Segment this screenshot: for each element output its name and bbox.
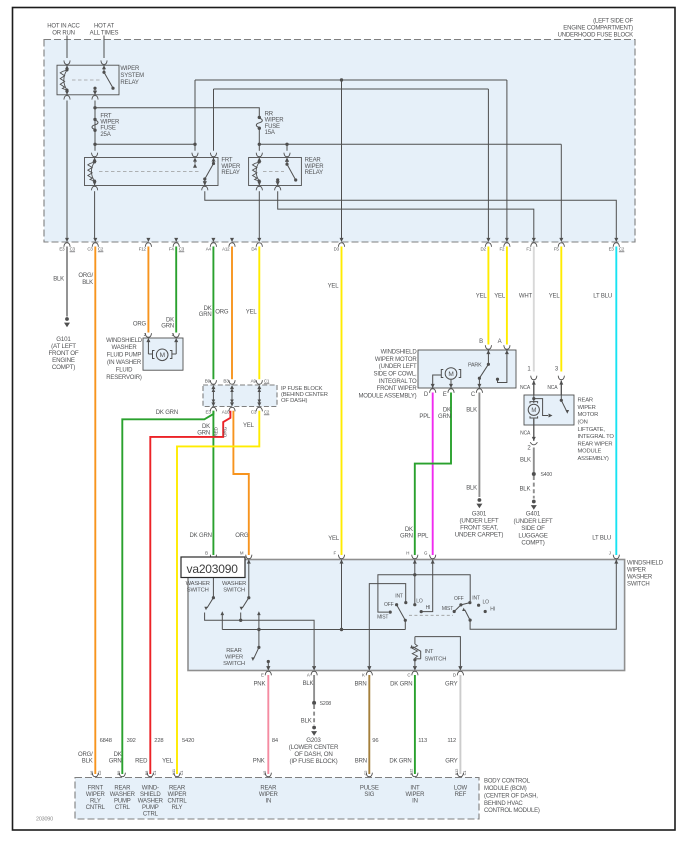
- svg-text:BRN: BRN: [355, 759, 367, 765]
- svg-text:A4: A4: [206, 246, 212, 251]
- svg-text:C1: C1: [264, 379, 270, 384]
- BCM pin A5: REAR WIPER IN: [265, 773, 271, 777]
- svg-text:YEL: YEL: [476, 293, 488, 299]
- component: REAR WIPER MOTOR box: [524, 395, 574, 425]
- svg-text:LO: LO: [483, 599, 490, 605]
- svg-text:YEL: YEL: [328, 536, 340, 542]
- wire: ORG from A12 to IP fuse block B3: [231, 247, 233, 380]
- svg-text:M: M: [160, 352, 165, 359]
- svg-text:FRONT WIPER: FRONT WIPER: [377, 386, 418, 392]
- wiper switch pin K: [367, 666, 371, 670]
- svg-text:ORG/: ORG/: [78, 752, 93, 758]
- svg-text:SIG: SIG: [364, 792, 374, 798]
- svg-text:G203: G203: [306, 737, 321, 744]
- wire: pin J feed to right pivot: [470, 560, 616, 630]
- svg-text:C2: C2: [619, 247, 625, 252]
- svg-text:BLK: BLK: [466, 485, 477, 491]
- wiper switch pin C: [413, 666, 417, 670]
- fuse F2: RR WIPER FUSE 15A: [258, 116, 261, 119]
- svg-text:IN: IN: [265, 798, 271, 804]
- wire: FRT relay switch output to E3 pin (right): [205, 191, 617, 238]
- ground G401: [532, 500, 536, 504]
- svg-text:BLK: BLK: [82, 759, 93, 765]
- splice S208: [312, 701, 316, 705]
- svg-text:BEHIND HVAC: BEHIND HVAC: [484, 801, 523, 807]
- svg-text:WIPER MOTOR: WIPER MOTOR: [375, 357, 417, 363]
- svg-text:ORG: ORG: [133, 321, 147, 327]
- BCM pin C2: PULSE SIG: [366, 773, 372, 777]
- svg-text:LT BLU: LT BLU: [593, 293, 612, 299]
- fuse block pin A4: [211, 238, 215, 242]
- wire: DK GRN from wiper motor E to switch pin H: [415, 393, 451, 556]
- fuse block pin D2: [486, 238, 490, 242]
- svg-text:HI: HI: [426, 605, 431, 611]
- svg-text:WASHER: WASHER: [627, 575, 653, 581]
- svg-text:BLK: BLK: [466, 407, 477, 413]
- svg-text:INT: INT: [472, 595, 480, 601]
- INT switch wiper arrow: [416, 658, 421, 660]
- wiper motor M2: [445, 368, 457, 380]
- svg-text:6848: 6848: [100, 738, 112, 744]
- svg-text:LO: LO: [416, 599, 423, 605]
- svg-text:113: 113: [418, 738, 427, 744]
- wiper mode switch left arm and pivot: [404, 619, 407, 622]
- svg-text:BLK: BLK: [519, 486, 530, 492]
- svg-text:84: 84: [272, 738, 279, 744]
- REAR wiper relay mech dashes: [263, 171, 284, 173]
- svg-text:ORG: ORG: [235, 533, 249, 539]
- REAR wiper relay switch common: [276, 178, 279, 181]
- IP fuse block feed-through at x=232: [230, 385, 234, 389]
- svg-text:(ON: (ON: [578, 420, 588, 426]
- fuse F1: FRT WIPER FUSE 25A: [93, 118, 96, 121]
- wiper system relay coil: [66, 65, 68, 70]
- svg-text:DK GRN: DK GRN: [156, 410, 178, 416]
- component: IP FUSE BLOCK (dashed box): [203, 385, 277, 407]
- wire: below FRT fuse to FRT wiper relay coil: [94, 130, 96, 151]
- svg-text:INT: INT: [425, 649, 434, 655]
- fuse block pin F1: [532, 238, 536, 242]
- fuse block pin A12: [230, 238, 234, 242]
- BCM pin B8: WIND- SHIELD WASHER PUMP CTRL: [147, 773, 153, 777]
- wire: PNK circuit 84 from pin E to BCM: [267, 675, 269, 774]
- BCM pin B9: REAR WASHER PUMP CTRL: [119, 773, 125, 777]
- wire: D2 drop: [487, 89, 489, 238]
- junction below FRT fuse: [93, 143, 96, 146]
- svg-text:(LEFT SIDE OF: (LEFT SIDE OF: [593, 19, 633, 25]
- wire: FRT relay coil to C3 pin: [94, 191, 96, 238]
- junction D3 tap on y80 line: [340, 78, 343, 81]
- svg-text:BLK: BLK: [53, 276, 64, 282]
- svg-text:E: E: [443, 392, 447, 398]
- svg-text:C3: C3: [179, 247, 185, 252]
- svg-text:OR RUN: OR RUN: [52, 30, 75, 36]
- wire: YEL from F2 to wiper motor pin A: [506, 247, 508, 345]
- wire: F2 drop: [506, 80, 508, 238]
- svg-text:MODULE ASSEMBLY): MODULE ASSEMBLY): [358, 394, 416, 400]
- svg-text:LT BLU: LT BLU: [592, 535, 611, 541]
- svg-text:E3: E3: [59, 246, 65, 251]
- wire: horizontal y89 to D2 pin: [214, 88, 489, 90]
- svg-text:WIPER: WIPER: [406, 792, 426, 798]
- svg-text:B: B: [479, 339, 483, 345]
- svg-text:C3: C3: [87, 246, 93, 251]
- FRT wiper relay switch arm: [213, 158, 215, 164]
- svg-text:GRN: GRN: [161, 324, 174, 330]
- wiper switch pin J: [614, 560, 618, 564]
- svg-text:C3: C3: [251, 410, 257, 415]
- wire: ORG from IP A10 down to wiper switch pin M: [233, 411, 248, 555]
- wire: DK GRN circuit 113 from pin C to BCM: [414, 675, 416, 774]
- gang dashes between wiper switches: [409, 614, 453, 616]
- junction below RR fuse: [258, 143, 261, 146]
- svg-text:PUMP: PUMP: [142, 805, 159, 811]
- svg-text:K: K: [362, 673, 365, 678]
- svg-text:MODULE (BCM): MODULE (BCM): [484, 786, 527, 792]
- wiper system relay mech dashes: [72, 79, 100, 81]
- svg-text:A12: A12: [409, 768, 414, 776]
- FRT wiper relay top pins: [93, 158, 97, 162]
- wiper switch pin F: [340, 560, 344, 564]
- fuse block pin D3: [340, 238, 344, 242]
- svg-text:MOTOR: MOTOR: [578, 412, 599, 418]
- svg-text:ORG: ORG: [223, 426, 229, 437]
- IP fuse block feed-through at x=213.4: [211, 385, 215, 389]
- svg-text:F12: F12: [139, 246, 147, 251]
- svg-text:WASHER: WASHER: [110, 792, 136, 798]
- INT SWITCH (variable resistor): [415, 637, 461, 666]
- fuse block pin D4: [257, 238, 261, 242]
- svg-text:OFF: OFF: [454, 596, 464, 602]
- svg-text:REAR: REAR: [578, 398, 593, 404]
- wiper mode switch left: feed from pin H: [414, 560, 416, 605]
- svg-text:E3: E3: [206, 410, 212, 415]
- svg-text:A9: A9: [251, 379, 257, 384]
- svg-text:FLUID: FLUID: [116, 367, 133, 373]
- svg-text:HOT AT: HOT AT: [94, 24, 115, 30]
- svg-text:WIPER: WIPER: [168, 792, 188, 798]
- svg-text:E3: E3: [609, 246, 615, 251]
- washer switch 1 (pin B): [212, 560, 214, 598]
- svg-text:ORG/: ORG/: [78, 273, 93, 279]
- wiper switch pin D: [458, 666, 462, 670]
- svg-text:CNTRL: CNTRL: [167, 798, 187, 804]
- wiper system relay bottom pins: [65, 91, 69, 95]
- svg-text:NCA: NCA: [520, 430, 531, 436]
- wiper switch pin M: [247, 560, 251, 564]
- svg-text:PPL: PPL: [417, 533, 429, 539]
- svg-text:NCA: NCA: [520, 385, 531, 391]
- wire: YEL from D4 to IP fuse block A9: [258, 247, 260, 380]
- svg-text:FUSE: FUSE: [265, 124, 280, 130]
- wire: HOT AT ALL TIMES feed down to wiper system relay switch: [103, 36, 105, 59]
- svg-text:OF DASH, ON: OF DASH, ON: [294, 751, 332, 758]
- svg-text:WASHER: WASHER: [222, 581, 246, 587]
- svg-text:RELAY: RELAY: [221, 170, 240, 176]
- svg-text:DK: DK: [202, 424, 210, 430]
- svg-text:DK GRN: DK GRN: [190, 533, 212, 539]
- svg-text:CTRL: CTRL: [143, 811, 159, 817]
- svg-text:LIFTGATE,: LIFTGATE,: [578, 427, 606, 433]
- svg-text:F2: F2: [500, 246, 506, 251]
- svg-text:S400: S400: [541, 472, 553, 478]
- BCM pin A6: FRNT WIPER RLY CNTRL: [92, 773, 98, 777]
- svg-text:J: J: [609, 551, 611, 556]
- svg-text:REAR WIPER: REAR WIPER: [578, 441, 613, 447]
- washer switch 1 output terminal arrow: [221, 611, 225, 615]
- wire: GRY circuit 112 from pin D to BCM: [459, 675, 461, 774]
- bus line to wiper mode switch pivot: [222, 629, 405, 631]
- rear wiper motor M3: [532, 397, 535, 400]
- wire: BLK dashed S208 to G203: [313, 705, 315, 725]
- svg-text:WHT: WHT: [519, 293, 533, 299]
- svg-text:OFF: OFF: [384, 602, 394, 608]
- svg-text:WASHER: WASHER: [138, 798, 164, 804]
- svg-text:REAR: REAR: [114, 785, 131, 791]
- wire: ORG from F12 to washer pump pin 2: [147, 247, 149, 333]
- svg-text:INTEGRAL TO: INTEGRAL TO: [379, 379, 417, 385]
- svg-text:WIND-: WIND-: [142, 785, 159, 791]
- wire: DK GRN from F4 to washer pump pin 1: [175, 247, 177, 333]
- svg-text:YEL: YEL: [162, 759, 174, 765]
- svg-text:INT: INT: [395, 594, 403, 600]
- wire: pin G to HI contact: [421, 560, 433, 612]
- wire: YEL from D2 to wiper motor pin B: [487, 247, 489, 345]
- wire: BLK dashed S400 to G401: [533, 476, 535, 499]
- svg-text:WINDSHIELD: WINDSHIELD: [106, 338, 143, 344]
- svg-text:F4: F4: [169, 246, 175, 251]
- svg-text:COMPT): COMPT): [521, 540, 544, 547]
- wire: vertical x195 from y80 to FRT relay: [194, 80, 196, 151]
- REAR wiper relay coil: [257, 158, 261, 162]
- svg-text:MIST: MIST: [377, 614, 388, 620]
- svg-text:RLY: RLY: [90, 798, 101, 804]
- svg-text:LOW: LOW: [454, 785, 468, 791]
- wire: pin F into bus: [341, 560, 343, 630]
- svg-text:(UNDER LEFT: (UNDER LEFT: [514, 518, 553, 525]
- svg-text:PUMP: PUMP: [114, 798, 131, 804]
- wire: relay switch output down to fuses: [94, 101, 96, 144]
- svg-text:GRY: GRY: [445, 681, 458, 687]
- svg-text:RR: RR: [265, 112, 274, 118]
- wire: RED circuit 228 from IP A10 to BCM: [150, 411, 230, 774]
- BCM pin A11: REAR WIPER CNTRL RLY: [174, 773, 180, 777]
- component: WINDSHIELD WASHER FLUID PUMP box: [143, 338, 183, 370]
- svg-text:SWITCH: SWITCH: [223, 588, 245, 594]
- wire: WHT from F1 to rear wiper motor pin 1: [533, 247, 535, 372]
- svg-text:YEL: YEL: [494, 293, 506, 299]
- svg-text:A10: A10: [222, 410, 230, 415]
- wire: ORG/BLK circuit 6848 from C3 to BCM: [94, 247, 96, 775]
- svg-text:OF DASH): OF DASH): [281, 398, 308, 404]
- svg-text:D4: D4: [251, 246, 257, 251]
- svg-text:DK: DK: [166, 317, 174, 323]
- relay K2: FRT WIPER RELAY box: [85, 158, 219, 186]
- splice S400: [532, 472, 536, 476]
- svg-text:SWITCH: SWITCH: [223, 661, 245, 667]
- svg-text:5420: 5420: [182, 738, 194, 744]
- wire: REAR relay switch output to F1 pin: [278, 191, 534, 238]
- svg-text:YEL: YEL: [243, 423, 255, 429]
- fuse block pin F12: [146, 238, 150, 242]
- relay K3: REAR WIPER RELAY box: [249, 158, 302, 186]
- wiper system relay switch common pin: [93, 87, 96, 90]
- svg-text:D: D: [453, 673, 456, 678]
- svg-text:REAR: REAR: [226, 648, 241, 654]
- svg-text:REAR: REAR: [260, 785, 277, 791]
- svg-text:A11: A11: [171, 768, 176, 775]
- svg-text:ASSEMBLY): ASSEMBLY): [578, 456, 609, 462]
- wiper switch pin B: [211, 560, 215, 564]
- svg-text:C: C: [407, 673, 410, 678]
- svg-text:96: 96: [372, 738, 378, 744]
- svg-text:PARK: PARK: [468, 362, 482, 368]
- fuse block pin C3: [93, 238, 97, 242]
- wire: FRT relay switch feed x213.5: [213, 89, 215, 151]
- FRT wiper relay bottom pins: [93, 181, 97, 185]
- svg-text:SIDE OF COWL,: SIDE OF COWL,: [374, 371, 418, 377]
- svg-text:DK GRN: DK GRN: [389, 759, 411, 765]
- FRT wiper relay contact arrow: [193, 164, 197, 168]
- junction at fuse feed split: [93, 106, 96, 109]
- ground G101: [65, 317, 69, 321]
- svg-text:HI: HI: [490, 606, 495, 612]
- svg-text:PPL: PPL: [419, 414, 431, 420]
- svg-text:DK: DK: [443, 407, 451, 413]
- svg-text:228: 228: [154, 738, 163, 744]
- svg-text:ORG: ORG: [215, 309, 229, 315]
- svg-text:ALL TIMES: ALL TIMES: [90, 30, 119, 36]
- wiper motor pin A: [505, 350, 509, 354]
- wire: BLK from pin A to S208: [313, 675, 315, 701]
- svg-text:SHIELD: SHIELD: [140, 792, 161, 798]
- wiper motor park NC stub: [498, 350, 507, 383]
- svg-text:A: A: [498, 339, 502, 345]
- svg-text:RESERVOIR): RESERVOIR): [106, 375, 142, 381]
- svg-text:PULSE: PULSE: [360, 785, 379, 791]
- svg-text:SWITCH: SWITCH: [425, 657, 447, 663]
- svg-text:COMPT): COMPT): [52, 364, 75, 371]
- svg-text:DK GRN: DK GRN: [390, 681, 412, 687]
- svg-text:RED: RED: [213, 426, 219, 436]
- washer pump motor M1: [147, 342, 149, 355]
- svg-text:FRT: FRT: [100, 114, 112, 120]
- svg-text:GRN: GRN: [199, 312, 212, 318]
- washer switch 2 (pin M): [248, 560, 250, 598]
- wire: YEL circuit 5420 from IP C3 to BCM: [177, 411, 259, 774]
- wire: DK GRN from IP E3 straight down to wiper switch pin B: [212, 411, 214, 555]
- svg-text:M: M: [531, 408, 536, 414]
- svg-text:GRY: GRY: [445, 759, 458, 765]
- svg-text:FLUID PUMP: FLUID PUMP: [107, 353, 142, 359]
- svg-text:WIPER: WIPER: [265, 118, 285, 124]
- wire: H branch to right-switch INT contact: [415, 575, 470, 601]
- wiper switch pin A: [312, 666, 316, 670]
- svg-text:D2: D2: [481, 246, 487, 251]
- svg-text:ENGINE COMPARTMENT): ENGINE COMPARTMENT): [563, 26, 633, 32]
- svg-text:BLK: BLK: [303, 681, 314, 687]
- component: WINDSHIELD WIPER MOTOR box: [418, 350, 516, 388]
- REAR wiper relay top pins: [257, 158, 261, 162]
- svg-text:GRN: GRN: [400, 533, 413, 539]
- svg-text:RELAY: RELAY: [120, 80, 139, 86]
- svg-text:112: 112: [447, 738, 456, 744]
- svg-text:MIST: MIST: [442, 606, 453, 612]
- svg-text:UNDER CARPET): UNDER CARPET): [455, 531, 504, 538]
- svg-text:(UNDER LEFT: (UNDER LEFT: [379, 364, 417, 370]
- REAR wiper relay switch arm: [285, 158, 289, 162]
- REAR wiper relay bottom pins: [257, 181, 261, 185]
- svg-text:25A: 25A: [100, 132, 110, 138]
- rear wiper motor switch arm: [560, 395, 562, 400]
- svg-text:LUGGAGE: LUGGAGE: [518, 532, 547, 539]
- wire: BLK rear motor to S400: [533, 448, 535, 473]
- svg-text:WIPER: WIPER: [627, 568, 647, 574]
- svg-text:RED: RED: [135, 759, 148, 765]
- ground G301: [478, 498, 482, 502]
- wire: REAR relay coil to D4 pin: [258, 191, 260, 238]
- svg-text:(CENTER OF DASH,: (CENTER OF DASH,: [484, 793, 538, 799]
- svg-text:WIPER: WIPER: [120, 66, 140, 72]
- svg-text:DK: DK: [114, 752, 122, 758]
- wiper switch pin G: [431, 560, 435, 564]
- svg-text:SYSTEM: SYSTEM: [120, 73, 144, 79]
- svg-text:WINDSHIELD: WINDSHIELD: [381, 349, 418, 355]
- svg-text:REF: REF: [455, 792, 467, 798]
- fuse block pin F4: [174, 238, 178, 242]
- wire: BLK from E3 to ground G101: [66, 247, 68, 317]
- fuse block pin E3: [614, 238, 618, 242]
- svg-text:DK: DK: [204, 306, 212, 312]
- wiper mode switch right feed arm: [469, 619, 472, 622]
- svg-text:S208: S208: [320, 701, 332, 707]
- wiper motor lead to pin D: [433, 375, 442, 388]
- svg-text:BODY CONTROL: BODY CONTROL: [484, 779, 531, 785]
- svg-text:MODULE: MODULE: [578, 449, 602, 455]
- svg-text:REAR: REAR: [169, 785, 186, 791]
- svg-text:WIPER: WIPER: [578, 405, 596, 411]
- wire: PPL from wiper motor D to switch pin G: [432, 393, 434, 556]
- svg-text:YEL: YEL: [246, 309, 258, 315]
- wiper mode switch right (rear-range) contacts: [453, 610, 456, 613]
- svg-text:GRN: GRN: [197, 431, 210, 437]
- svg-text:A: A: [307, 673, 310, 678]
- relay K1: WIPER SYSTEM RELAY box: [57, 65, 119, 95]
- svg-text:BLK: BLK: [301, 719, 312, 725]
- BCM pin A12: INT WIPER IN: [412, 773, 418, 777]
- svg-text:DK: DK: [405, 527, 413, 533]
- rear wiper motor pin 2: [533, 419, 535, 441]
- wire: LT BLU from E3 to wiper switch pin J: [615, 247, 617, 556]
- wire: pulse sig from INT contact to pin K: [369, 584, 405, 666]
- svg-text:G401: G401: [526, 511, 541, 518]
- wiper system relay switch arm: [103, 65, 105, 72]
- svg-text:M: M: [240, 551, 244, 556]
- svg-text:INT: INT: [410, 785, 420, 791]
- wire: feed over to RR wiper fuse: [95, 108, 259, 118]
- svg-text:B9: B9: [205, 379, 211, 384]
- svg-text:RLY: RLY: [172, 805, 183, 811]
- fuse block pin E3: [65, 238, 69, 242]
- rear wiper motor internal arrow: [534, 399, 548, 416]
- wire: YEL from D3 to wiper switch pin F: [341, 247, 343, 556]
- module: BODY CONTROL MODULE (dashed box): [75, 778, 479, 820]
- wire: RR fuse output to rear relay contact and F5: [259, 143, 561, 145]
- svg-text:203090: 203090: [36, 817, 53, 823]
- svg-text:CONTROL MODULE): CONTROL MODULE): [484, 808, 540, 814]
- ground G203: [312, 726, 316, 730]
- svg-text:CTRL: CTRL: [115, 805, 131, 811]
